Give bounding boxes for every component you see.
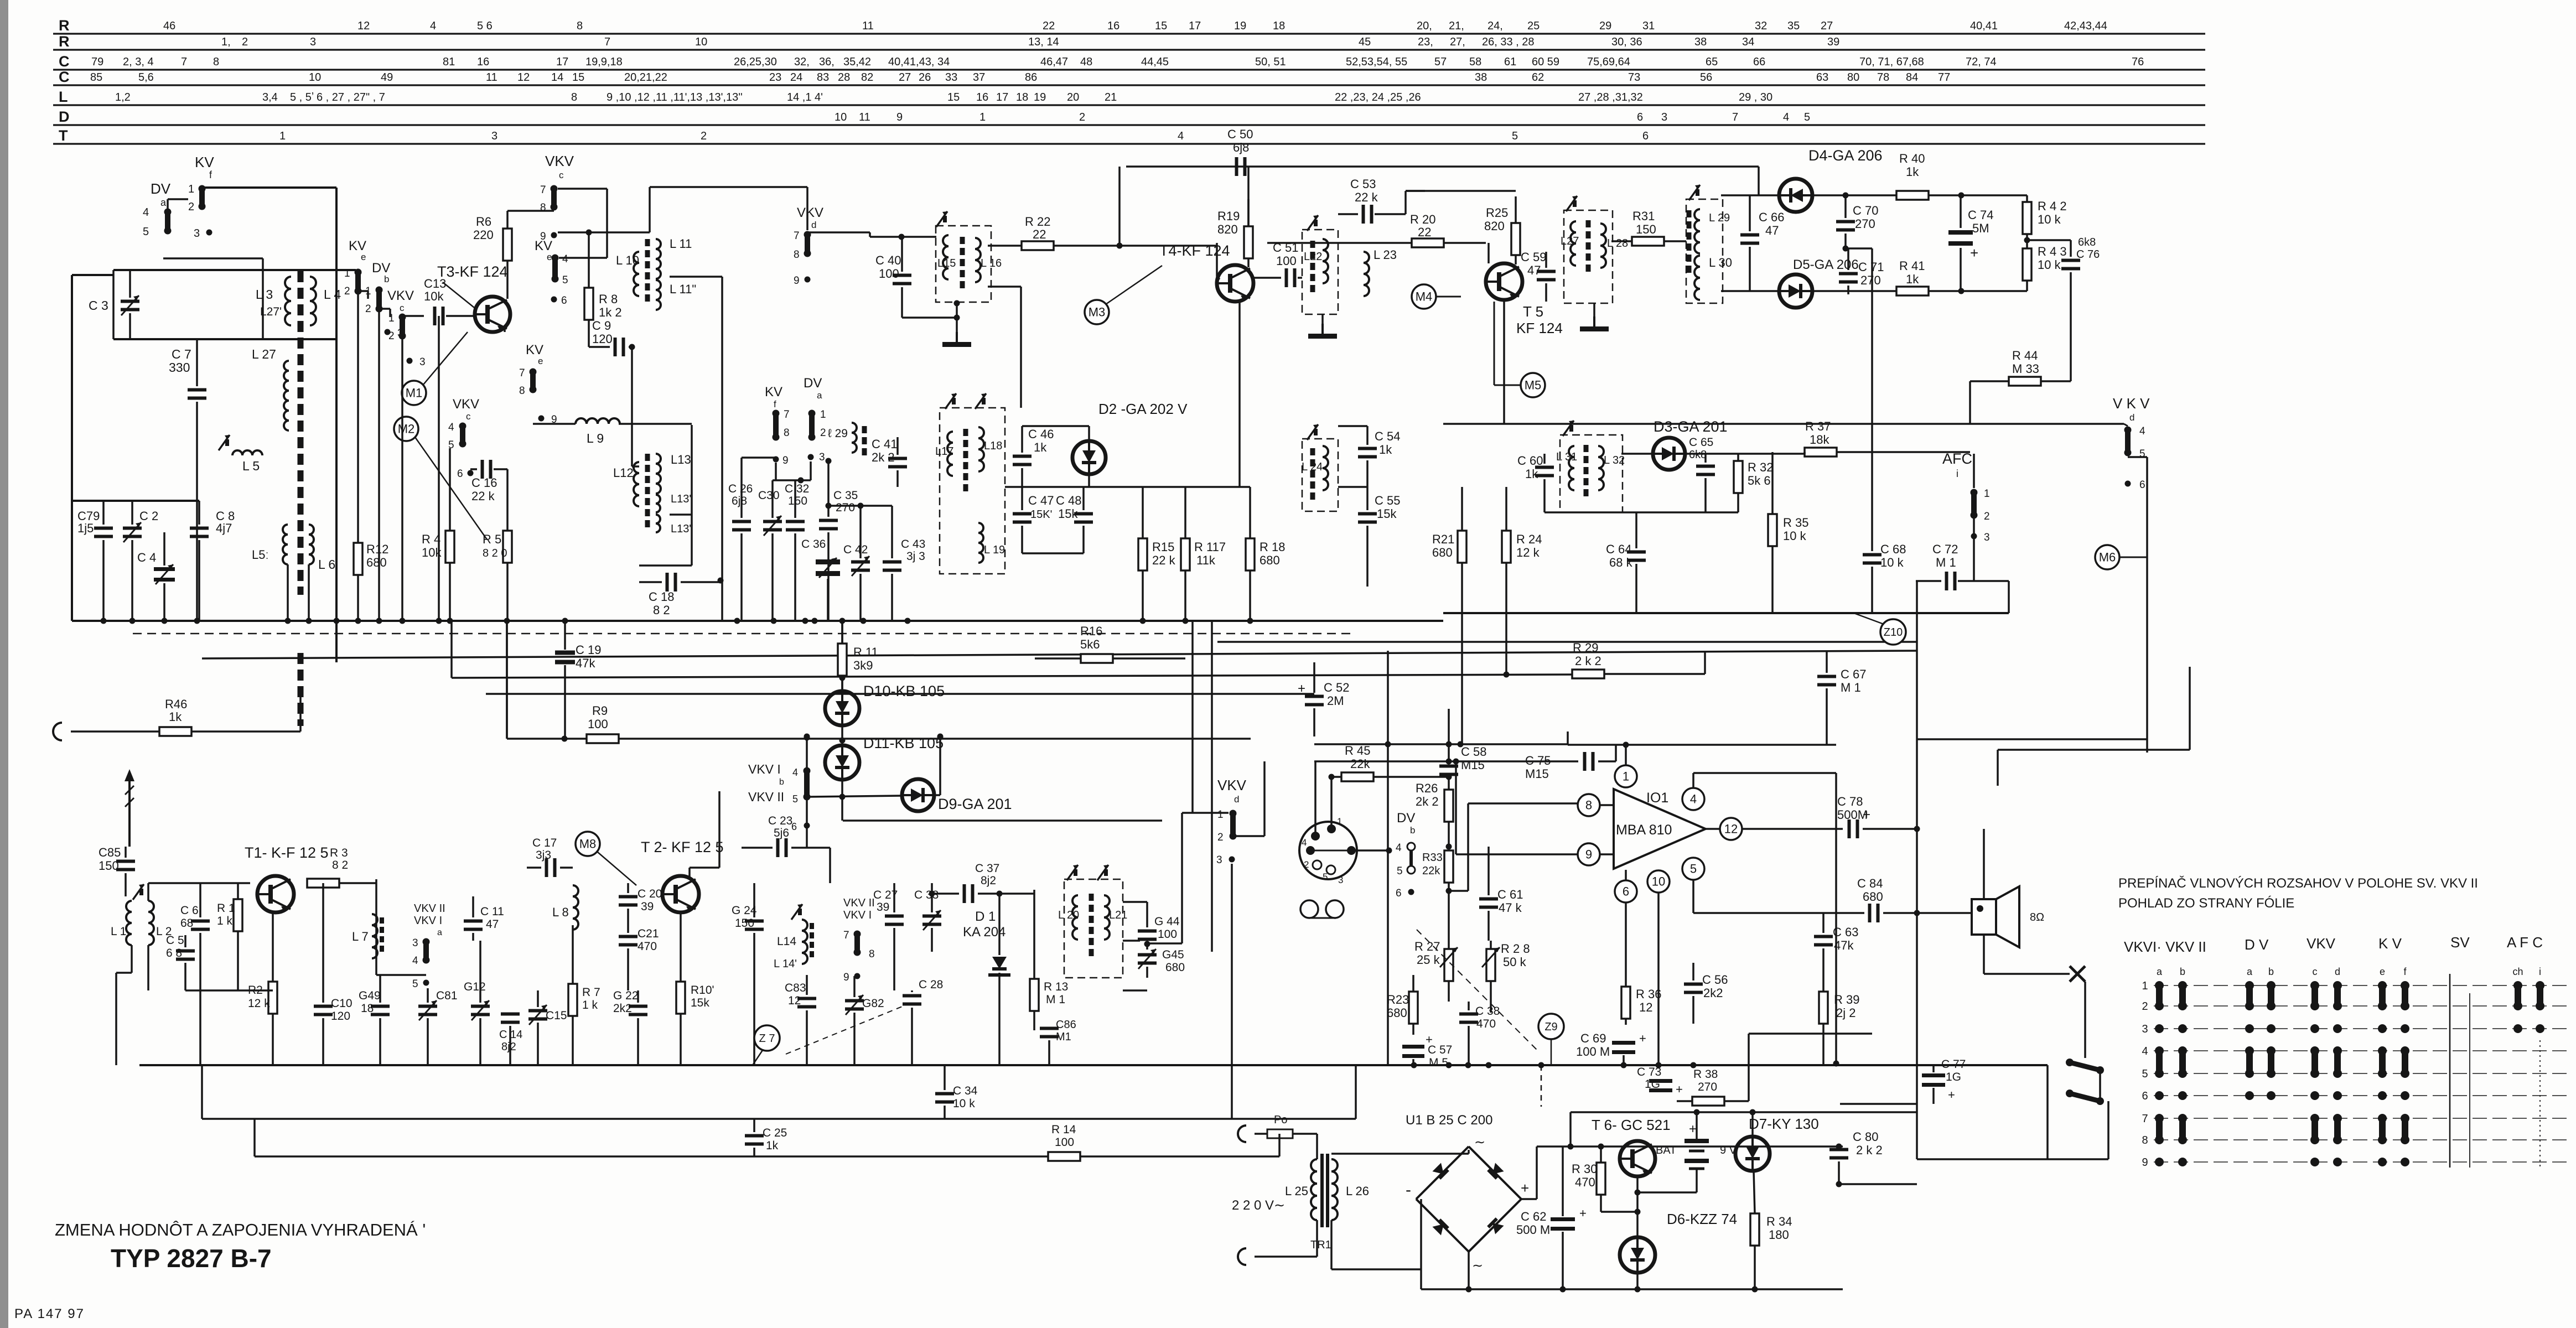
svg-text:45: 45: [1359, 36, 1371, 48]
svg-text:C 20: C 20: [637, 888, 662, 900]
svg-text:47k: 47k: [576, 656, 595, 670]
capacitor C3: [121, 300, 139, 303]
svg-text:VKV: VKV: [453, 397, 479, 412]
svg-text:29: 29: [1599, 20, 1611, 32]
svg-text:C 55: C 55: [1375, 494, 1400, 507]
svg-text:L 4: L 4: [324, 287, 341, 302]
wire L13 out: [670, 513, 692, 516]
matrix contact Cd rows 7-8: [2333, 1114, 2342, 1123]
svg-text:8 2: 8 2: [653, 603, 670, 617]
capacitor C48: [1074, 512, 1093, 516]
svg-text:12 k: 12 k: [248, 997, 270, 1010]
capacitor C55: [1358, 512, 1377, 516]
coil L16: [975, 238, 981, 282]
svg-text:8: 8: [869, 948, 875, 960]
capacitor C37: [963, 884, 966, 903]
svg-text:2: 2: [388, 330, 395, 342]
svg-text:73: 73: [1628, 71, 1640, 84]
svg-text:C 26: C 26: [728, 483, 753, 495]
matrix contact dot Bb row 3: [2267, 1024, 2276, 1033]
svg-text:L 11: L 11: [670, 237, 692, 251]
svg-text:100: 100: [1158, 928, 1177, 941]
wire R9 row: [507, 738, 1251, 740]
svg-text:5: 5: [1512, 130, 1518, 142]
svg-text:12: 12: [357, 20, 370, 32]
svg-text:L 6: L 6: [318, 557, 335, 572]
svg-text:70, 71, 67,68: 70, 71, 67,68: [1859, 56, 1924, 68]
svg-text:C 68: C 68: [1880, 542, 1906, 556]
svg-text:a: a: [817, 390, 822, 401]
svg-text:R 41: R 41: [1899, 259, 1925, 273]
matrix contact Cd rows 1-2: [2333, 981, 2342, 990]
svg-text:17: 17: [1189, 20, 1201, 32]
svg-text:4: 4: [448, 422, 454, 433]
svg-text:13, 14: 13, 14: [1028, 36, 1059, 48]
svg-text:L 27: L 27: [252, 347, 276, 361]
wire R24 col ext: [1505, 613, 1507, 674]
capacitor C56: [1684, 983, 1703, 986]
svg-text:26,25,30: 26,25,30: [734, 56, 777, 68]
matrix contact Aa rows 7-8: [2155, 1114, 2164, 1123]
diode D9: [902, 779, 934, 811]
svg-text:C 37: C 37: [975, 862, 999, 875]
wire loop top: [72, 274, 113, 276]
capacitor C9: [614, 338, 617, 356]
svg-text:b: b: [779, 777, 784, 787]
diode D10: [825, 691, 859, 725]
svg-text:9: 9: [1585, 848, 1592, 862]
svg-text:C 41: C 41: [872, 437, 897, 451]
label osc 9: [773, 456, 779, 463]
svg-text:38: 38: [1475, 71, 1487, 84]
wire R5 col ext: [506, 621, 508, 739]
svg-text:d: d: [2129, 412, 2134, 423]
if transformer L17 L18 box: [940, 408, 1005, 574]
svg-text:86: 86: [1025, 71, 1037, 84]
coil L15: [943, 235, 948, 279]
svg-text:C 56: C 56: [1702, 973, 1728, 987]
wire x3464 seg2: [1916, 645, 1918, 829]
resistor R6: [503, 229, 512, 261]
svg-text:24,: 24,: [1487, 20, 1503, 32]
matrix contact De rows 4-5: [2378, 1046, 2387, 1055]
svg-text:5 , 5ʼ: 5 , 5ʼ: [290, 91, 314, 103]
svg-text:47: 47: [1527, 263, 1541, 277]
svg-text:D10-KB 105: D10-KB 105: [863, 683, 945, 699]
svg-text:M 33: M 33: [2012, 362, 2039, 376]
svg-text:D7-KY 130: D7-KY 130: [1749, 1116, 1819, 1132]
svg-text:R 13: R 13: [1044, 981, 1068, 993]
svg-text:7: 7: [784, 409, 790, 421]
coil L11: [656, 239, 661, 279]
svg-text:22: 22: [1033, 227, 1046, 241]
svg-text:3,4: 3,4: [262, 91, 278, 103]
svg-text:47: 47: [486, 918, 499, 931]
resistor R34: [1750, 1213, 1759, 1246]
svg-text:a: a: [2247, 966, 2253, 977]
svg-text:23: 23: [769, 71, 781, 84]
svg-text:680: 680: [1260, 553, 1280, 567]
wire v647 mid: [357, 292, 359, 520]
svg-text:11: 11: [862, 20, 874, 32]
svg-text:1k: 1k: [169, 710, 182, 724]
core L15L16: [960, 237, 965, 244]
ground L22: [1321, 314, 1324, 324]
svg-text:VKV I: VKV I: [414, 915, 442, 927]
capacitor C10: [314, 1005, 333, 1008]
svg-text:C 78: C 78: [1837, 795, 1863, 808]
circle Z7: [754, 1025, 780, 1051]
bridge rectifier U1: [1416, 1147, 1469, 1199]
svg-text:G 24: G 24: [732, 904, 757, 917]
transistor T1: [257, 876, 294, 912]
transistor T3: [475, 297, 510, 332]
wire spk sw frame: [2046, 1065, 2049, 1159]
svg-text:15: 15: [572, 71, 584, 84]
svg-text:c: c: [2313, 966, 2318, 977]
svg-text:M5: M5: [1525, 378, 1542, 392]
capacitor C45: [1138, 953, 1157, 957]
matrix contact dot Cc row 9: [2310, 1158, 2319, 1166]
vertical x3178: [1758, 167, 1760, 195]
svg-text:VKV II: VKV II: [843, 897, 875, 909]
svg-text:R 39: R 39: [1834, 993, 1859, 1007]
svg-text:18k: 18k: [1810, 433, 1829, 447]
wire right col: [2070, 310, 2072, 381]
coil L10: [634, 252, 639, 296]
capacitor C86: [1040, 1027, 1059, 1030]
resistor R27: [1444, 949, 1453, 981]
svg-text:7: 7: [519, 367, 525, 379]
matrix contact dot De row 9: [2378, 1158, 2387, 1166]
svg-text:ℓ 29: ℓ 29: [828, 427, 848, 440]
svg-text:6 , 27 , 27ʺ , 7: 6 , 27 , 27ʺ , 7: [317, 91, 385, 103]
svg-text:R 4 3: R 4 3: [2038, 245, 2067, 258]
svg-text:75,69,64: 75,69,64: [1587, 56, 1630, 68]
svg-text:a: a: [437, 928, 442, 937]
svg-text:C 43: C 43: [901, 538, 925, 551]
resistor R33: [1444, 850, 1453, 883]
mains hook top: [1238, 1125, 1246, 1142]
svg-text:7: 7: [604, 36, 610, 48]
svg-text:3k9: 3k9: [853, 658, 873, 672]
svg-text:VKV I: VKV I: [748, 762, 781, 776]
if transformer L15 L16 box: [936, 226, 991, 302]
matrix contact dot De row 3: [2378, 1024, 2387, 1033]
wire T6 D6: [1636, 1176, 1639, 1237]
capacitor C14: [501, 1013, 520, 1016]
matrix contact dot Cd row 9: [2333, 1158, 2342, 1166]
svg-text:L15: L15: [937, 257, 956, 269]
resistor R43: [2023, 248, 2031, 281]
svg-text:100: 100: [1276, 254, 1297, 268]
svg-text:42,43,44: 42,43,44: [2064, 20, 2107, 32]
svg-text:2: 2: [1079, 111, 1085, 123]
svg-text:R 117: R 117: [1194, 540, 1226, 554]
wire T3 emitter down: [504, 328, 506, 332]
wire D9 row: [809, 796, 902, 797]
svg-text:1 k: 1 k: [582, 999, 598, 1011]
svg-text:R 35: R 35: [1783, 516, 1808, 530]
resistor R10: [676, 982, 685, 1014]
svg-text:M1: M1: [406, 386, 423, 400]
svg-text:8j2: 8j2: [981, 874, 996, 887]
wire trafo: [1316, 1134, 1318, 1159]
svg-text:8: 8: [540, 202, 546, 214]
svg-text:2: 2: [1304, 859, 1309, 870]
svg-text:C 7: C 7: [172, 347, 191, 361]
capacitor C21: [619, 935, 637, 938]
svg-text:8 2: 8 2: [332, 859, 348, 871]
ferrite rod lower: [298, 653, 304, 726]
svg-text:MBA 810: MBA 810: [1616, 822, 1672, 838]
matrix contact Ei rows 1-2: [2536, 981, 2544, 990]
switch spk contacts: [2066, 1059, 2074, 1066]
matrix contact De rows 1-2: [2378, 981, 2387, 990]
svg-text:L 20: L 20: [1058, 909, 1079, 921]
svg-text:VKV II: VKV II: [748, 790, 784, 804]
svg-text:C 6: C 6: [180, 904, 199, 917]
coil L12: [634, 462, 639, 506]
svg-text:AFC: AFC: [1942, 450, 1972, 467]
svg-text:IO1: IO1: [1646, 790, 1668, 806]
svg-text:d: d: [1234, 794, 1239, 805]
svg-text:C 52: C 52: [1324, 681, 1349, 694]
bus wire mid1: [1217, 641, 1917, 643]
wire pin10 down: [1657, 893, 1660, 1065]
capacitor C20: [619, 895, 637, 899]
speaker: [1972, 899, 1996, 935]
svg-text:L 32: L 32: [1604, 454, 1625, 466]
diode D1: [992, 957, 1007, 969]
svg-text:d: d: [2335, 966, 2340, 977]
svg-text:C 28: C 28: [919, 978, 943, 991]
svg-text:25: 25: [1527, 20, 1540, 32]
svg-text:8Ω: 8Ω: [2030, 911, 2044, 924]
svg-text:C 67: C 67: [1841, 667, 1866, 681]
svg-text:1: 1: [344, 268, 350, 279]
svg-text:100: 100: [1055, 1136, 1074, 1149]
coil L17: [947, 432, 953, 476]
svg-text:7: 7: [540, 184, 546, 196]
svg-text:C 36: C 36: [801, 538, 826, 551]
capacitor C66: [1740, 234, 1759, 237]
ground L15: [956, 302, 958, 332]
svg-text:5: 5: [412, 978, 418, 990]
wire L1 bottom: [131, 945, 133, 973]
capacitor C4: [154, 567, 175, 571]
svg-text:L5ː: L5ː: [252, 548, 269, 562]
svg-text:R12: R12: [366, 542, 388, 556]
svg-text:L13: L13: [671, 453, 691, 466]
svg-text:4: 4: [1302, 837, 1307, 848]
svg-text:120: 120: [592, 332, 613, 346]
svg-text:330: 330: [169, 360, 190, 375]
svg-text:C10: C10: [331, 997, 353, 1010]
svg-text:4: 4: [2139, 426, 2145, 437]
resistor R5: [503, 531, 512, 563]
capacitor C62: [1551, 1217, 1575, 1221]
matrix contact Cd rows 4-5: [2333, 1046, 2342, 1055]
capacitor C46: [1013, 455, 1032, 458]
vertical x1458: [806, 736, 808, 769]
svg-text:2: 2: [1984, 511, 1990, 522]
svg-text:270: 270: [1855, 217, 1875, 231]
svg-text:4: 4: [1690, 792, 1697, 806]
wire T5 base row: [1267, 242, 1486, 244]
if transformer L31 L32 box: [1560, 435, 1623, 512]
svg-text:L21: L21: [1109, 909, 1127, 921]
resistor R35: [1768, 514, 1777, 546]
resistor R30: [1597, 1163, 1605, 1195]
jack circles: [1300, 900, 1318, 918]
wire L11 out: [670, 276, 722, 278]
svg-text:2: 2: [2142, 1000, 2148, 1013]
capacitor C24: [745, 920, 764, 923]
svg-text:M8: M8: [579, 837, 597, 851]
wire bridge out: [1521, 1198, 1537, 1200]
svg-text:R 14: R 14: [1051, 1123, 1076, 1136]
svg-text:6k8: 6k8: [2078, 236, 2096, 248]
svg-text:100 M: 100 M: [1576, 1045, 1610, 1059]
svg-text:5: 5: [792, 793, 798, 805]
svg-text:R 45: R 45: [1345, 744, 1370, 758]
svg-text:C 38: C 38: [1475, 1005, 1500, 1018]
z9 dash stem: [1541, 1065, 1542, 1107]
svg-text:14 ,1 4ʹ: 14 ,1 4ʹ: [787, 91, 823, 103]
resistor R29: [1572, 670, 1604, 678]
svg-text:57: 57: [1434, 56, 1447, 68]
svg-text:M6: M6: [2099, 551, 2116, 564]
svg-text:150: 150: [1636, 222, 1656, 236]
coil L1: [126, 901, 132, 945]
svg-text:C 50: C 50: [1227, 127, 1253, 141]
circle Z10: [1880, 619, 1906, 645]
coil L30: [1694, 256, 1700, 300]
matrix contact Cc rows 7-8: [2310, 1114, 2319, 1123]
svg-text:6: 6: [561, 295, 567, 307]
svg-text:R19: R19: [1217, 209, 1240, 223]
svg-text:85: 85: [90, 71, 102, 84]
coil L21: [1104, 895, 1110, 940]
matrix contact dot Aa row 6: [2155, 1091, 2164, 1100]
wire dash Z7C28: [786, 1004, 908, 1054]
svg-text:3: 3: [491, 130, 497, 142]
circle M8: [576, 832, 600, 856]
svg-text:36,: 36,: [819, 56, 835, 68]
wire y345 T5: [1406, 190, 1516, 192]
capacitor C59: [1537, 270, 1556, 273]
svg-text:7: 7: [181, 56, 187, 68]
resistor R117: [1181, 538, 1190, 570]
wire VKVc to C13: [402, 315, 424, 317]
coil L4: [310, 277, 316, 325]
svg-text:7: 7: [794, 230, 800, 242]
coil L26: [1331, 1159, 1338, 1220]
wire D3 row: [1621, 453, 1653, 455]
wire R19 top: [1247, 167, 1250, 226]
svg-text:34: 34: [937, 56, 950, 68]
svg-text:21,: 21,: [1449, 20, 1464, 32]
matrix contact dot Ab row 9: [2178, 1158, 2187, 1166]
svg-text:U1 B 25 C 200: U1 B 25 C 200: [1406, 1113, 1492, 1128]
svg-text:C 47: C 47: [1028, 494, 1054, 507]
svg-text:R10ʹ: R10ʹ: [691, 984, 714, 997]
svg-text:4: 4: [430, 20, 436, 32]
svg-text:2: 2: [365, 303, 371, 315]
ferrite rod: [298, 271, 304, 595]
svg-text:C 61: C 61: [1497, 888, 1523, 901]
svg-text:1: 1: [1337, 816, 1342, 827]
svg-text:60 59: 60 59: [1532, 56, 1559, 68]
matrix contact dot Aa row 3: [2155, 1024, 2164, 1033]
svg-text:680: 680: [1387, 1006, 1407, 1020]
svg-text:2: 2: [242, 36, 248, 48]
matrix contact dot Df row 9: [2401, 1158, 2409, 1166]
resistor R15: [1138, 538, 1147, 570]
svg-text:3: 3: [310, 36, 316, 48]
svg-text:G49: G49: [359, 989, 381, 1002]
svg-text:T 6- GC 521: T 6- GC 521: [1592, 1117, 1671, 1133]
svg-text:c: c: [400, 303, 405, 313]
capacitor C50: [1235, 157, 1238, 176]
svg-text:L 3: L 3: [256, 287, 273, 302]
wire y2022 right bend: [1355, 1065, 1357, 1119]
wire T3 pointer: [443, 282, 477, 310]
svg-text:1G: 1G: [1645, 1078, 1660, 1091]
svg-text:R6: R6: [476, 215, 491, 229]
svg-text:KV: KV: [526, 343, 543, 357]
matrix contact dot Df row 6: [2401, 1091, 2409, 1100]
svg-text:C86: C86: [1056, 1019, 1076, 1031]
svg-text:L 1: L 1: [111, 925, 126, 938]
svg-text:1: 1: [1623, 770, 1629, 784]
svg-text:4: 4: [1178, 130, 1184, 142]
svg-text:G82: G82: [862, 997, 884, 1010]
svg-text:22: 22: [1418, 225, 1431, 239]
svg-text:R 2 8: R 2 8: [1501, 942, 1530, 956]
svg-text:b: b: [2268, 966, 2274, 977]
wire T4 emitter: [1238, 302, 1241, 487]
svg-text:T4-KF 124: T4-KF 124: [1159, 242, 1230, 259]
svg-text:1: 1: [979, 111, 986, 123]
svg-text:3: 3: [1984, 532, 1990, 543]
svg-text:11: 11: [486, 71, 497, 84]
transistor T6: [1620, 1141, 1655, 1176]
svg-text:4: 4: [143, 206, 149, 219]
svg-text:1: 1: [820, 409, 826, 421]
svg-text:1,: 1,: [221, 36, 231, 48]
svg-text:11: 11: [859, 111, 870, 123]
capacitor C16: [481, 460, 484, 479]
svg-text:C 35: C 35: [833, 489, 858, 502]
capacitor C78: [1848, 819, 1851, 838]
matrix contact dot Cc row 6: [2310, 1091, 2319, 1100]
svg-text:VKV: VKV: [2307, 935, 2336, 952]
svg-text:68: 68: [180, 917, 193, 930]
svg-text:29 , 30: 29 , 30: [1739, 91, 1772, 103]
svg-text:1k: 1k: [1034, 440, 1047, 454]
svg-text:27,: 27,: [1450, 36, 1465, 48]
svg-text:22 k: 22 k: [471, 489, 495, 503]
svg-text:e: e: [547, 252, 552, 262]
svg-text:L 11ʺ: L 11ʺ: [670, 282, 696, 296]
svg-text:3: 3: [412, 937, 418, 949]
matrix contact Ab rows 7-8: [2178, 1114, 2187, 1123]
capacitor C85: [116, 860, 135, 863]
svg-text:R 32: R 32: [1748, 460, 1773, 474]
svg-text:VKV: VKV: [387, 288, 414, 303]
